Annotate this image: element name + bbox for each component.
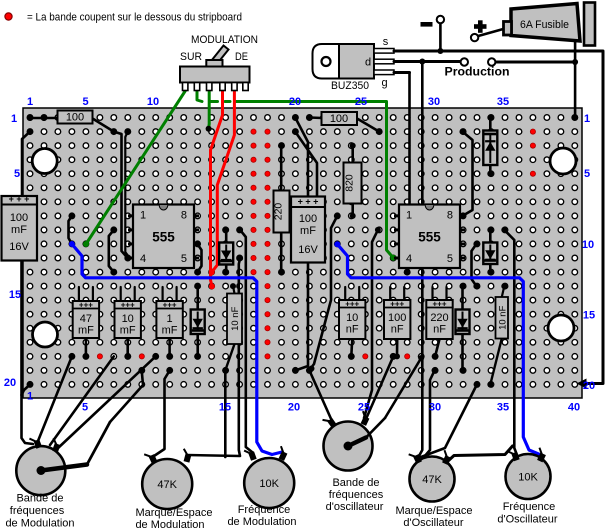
svg-text:d: d	[365, 57, 371, 69]
svg-text:mF: mF	[78, 325, 94, 337]
svg-text:10: 10	[346, 312, 358, 324]
svg-text:555: 555	[418, 229, 441, 244]
svg-text:5: 5	[82, 402, 88, 414]
svg-text:1: 1	[140, 210, 146, 222]
svg-text:+++: +++	[79, 300, 93, 309]
svg-text:d'Oscillateur: d'Oscillateur	[497, 514, 558, 526]
svg-text:820: 820	[344, 174, 356, 192]
svg-text:16V: 16V	[298, 244, 318, 256]
svg-text:5: 5	[181, 253, 187, 265]
svg-text:BUZ350: BUZ350	[331, 80, 369, 92]
svg-text:d'Oscillateur: d'Oscillateur	[403, 517, 464, 529]
svg-text:4: 4	[406, 253, 412, 265]
svg-text:+++: +++	[121, 300, 135, 309]
svg-text:100: 100	[330, 113, 348, 125]
svg-text:nF: nF	[391, 324, 404, 336]
svg-text:= La bande coupent sur le dess: = La bande coupent sur le dessous du str…	[27, 12, 242, 24]
svg-text:+ + +: + + +	[298, 197, 319, 207]
svg-text:100: 100	[299, 213, 317, 225]
svg-text:mF: mF	[11, 224, 27, 236]
svg-text:100: 100	[388, 312, 406, 324]
svg-text:fréquences: fréquences	[329, 489, 384, 501]
svg-text:s: s	[383, 36, 389, 48]
svg-text:1: 1	[406, 210, 412, 222]
svg-text:16V: 16V	[9, 241, 29, 253]
svg-text:10K: 10K	[518, 472, 538, 484]
svg-text:40: 40	[568, 402, 580, 414]
svg-text:100: 100	[66, 112, 84, 124]
svg-text:47K: 47K	[157, 479, 177, 491]
svg-text:MODULATION: MODULATION	[191, 34, 258, 46]
svg-text:220: 220	[273, 203, 285, 221]
svg-text:1: 1	[27, 391, 33, 403]
svg-text:Marque/Espace: Marque/Espace	[395, 505, 472, 517]
svg-text:1: 1	[27, 96, 33, 108]
svg-text:1: 1	[11, 113, 17, 125]
svg-text:Fréquence: Fréquence	[238, 504, 291, 516]
svg-text:+ + +: + + +	[9, 194, 30, 204]
svg-text:5: 5	[447, 253, 453, 265]
svg-text:+++: +++	[345, 299, 359, 308]
svg-text:25: 25	[355, 96, 367, 108]
svg-text:+++: +++	[390, 299, 404, 308]
svg-text:1: 1	[584, 113, 590, 125]
svg-text:1: 1	[167, 313, 173, 325]
svg-text:4: 4	[140, 253, 146, 265]
svg-text:Fréquence: Fréquence	[503, 501, 556, 513]
svg-text:20: 20	[4, 377, 16, 389]
svg-text:mF: mF	[162, 325, 178, 337]
svg-text:47: 47	[80, 313, 92, 325]
svg-text:555: 555	[152, 229, 175, 244]
svg-text:30: 30	[429, 402, 441, 414]
svg-text:10: 10	[582, 239, 594, 251]
svg-text:20: 20	[289, 96, 301, 108]
svg-text:+++: +++	[163, 300, 177, 309]
svg-text:nF: nF	[433, 324, 446, 336]
svg-text:10 nF: 10 nF	[497, 305, 508, 329]
svg-text:35: 35	[497, 96, 509, 108]
svg-text:5: 5	[584, 168, 590, 180]
svg-text:6A Fusible: 6A Fusible	[520, 19, 569, 31]
svg-text:10K: 10K	[259, 478, 279, 490]
svg-text:47K: 47K	[422, 474, 442, 486]
svg-text:220: 220	[430, 312, 448, 324]
svg-text:g: g	[381, 77, 387, 89]
svg-text:mF: mF	[300, 225, 316, 237]
svg-text:15: 15	[219, 402, 231, 414]
svg-text:15: 15	[9, 289, 21, 301]
svg-text:mF: mF	[120, 325, 136, 337]
svg-text:10: 10	[122, 313, 134, 325]
svg-text:10: 10	[147, 96, 159, 108]
svg-text:d'oscillateur: d'oscillateur	[326, 501, 384, 513]
svg-text:35: 35	[497, 402, 509, 414]
svg-text:fréquences: fréquences	[10, 505, 65, 517]
svg-text:10 nF: 10 nF	[230, 306, 241, 330]
svg-text:15: 15	[583, 310, 595, 322]
svg-text:SUR: SUR	[180, 51, 202, 63]
svg-text:20: 20	[288, 402, 300, 414]
svg-text:DE: DE	[235, 51, 248, 63]
svg-text:5: 5	[82, 96, 88, 108]
svg-text:de Modulation: de Modulation	[135, 519, 204, 529]
svg-text:25: 25	[358, 402, 370, 414]
svg-text:de Modulation: de Modulation	[227, 516, 296, 528]
svg-text:20: 20	[583, 380, 595, 392]
svg-text:Marque/Espace: Marque/Espace	[135, 507, 212, 519]
svg-text:Bande de: Bande de	[332, 477, 379, 489]
svg-text:100: 100	[10, 212, 28, 224]
svg-text:5: 5	[14, 168, 20, 180]
svg-text:de Modulation: de Modulation	[5, 518, 74, 529]
svg-text:8: 8	[447, 210, 453, 222]
svg-text:+++: +++	[432, 299, 446, 308]
svg-text:Bande de: Bande de	[16, 493, 63, 505]
svg-text:8: 8	[181, 210, 187, 222]
svg-text:Production: Production	[445, 65, 510, 79]
svg-text:nF: nF	[346, 324, 359, 336]
svg-text:30: 30	[428, 96, 440, 108]
